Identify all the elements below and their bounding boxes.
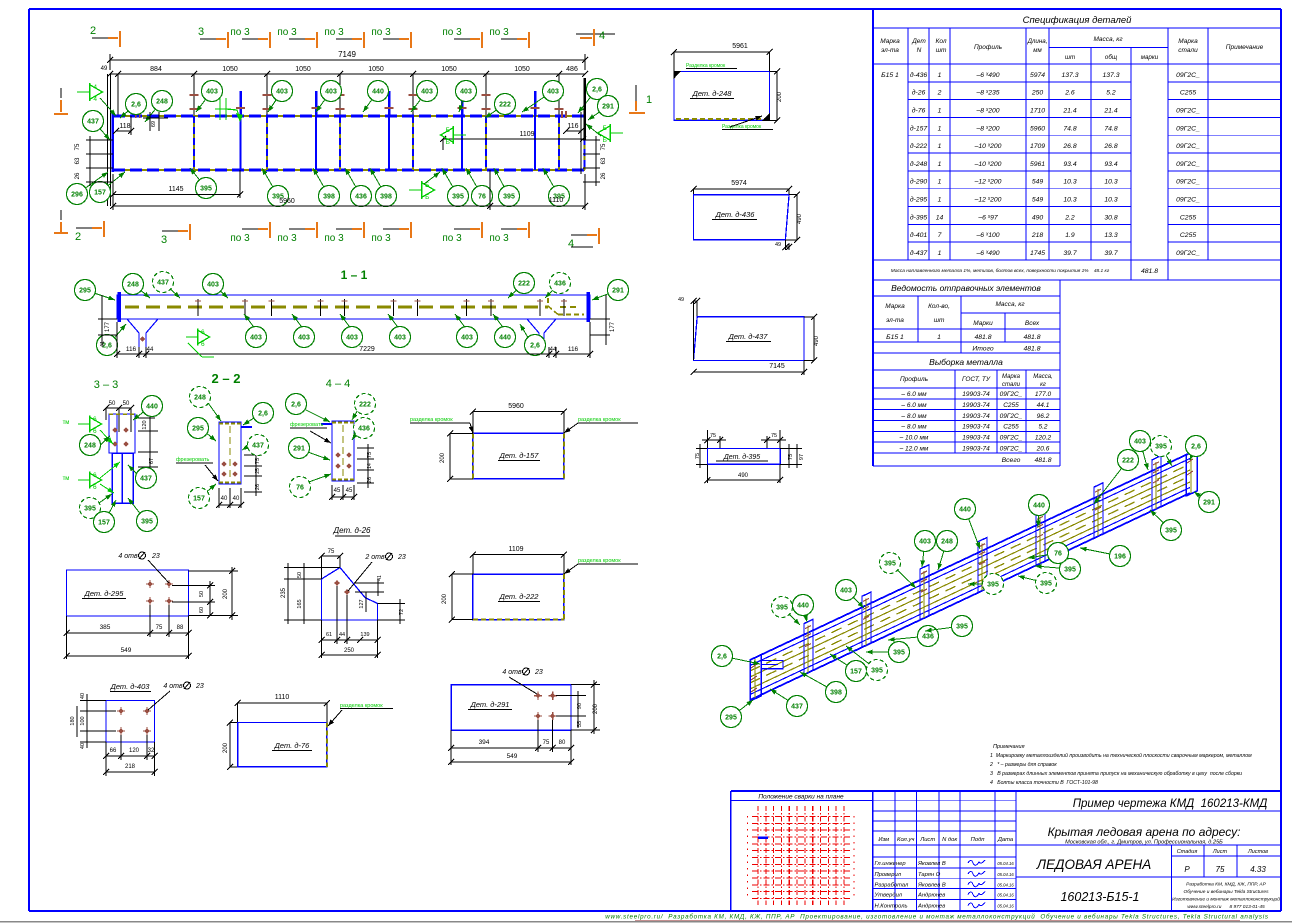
svg-text:235: 235 (281, 587, 287, 598)
svg-text:2 * – размеры для справок: 2 * – размеры для справок (989, 762, 1057, 768)
svg-text:–6 ˣ490: –6 ˣ490 (975, 250, 999, 257)
svg-text:67: 67 (149, 458, 155, 464)
svg-text:137.3: 137.3 (1061, 72, 1078, 79)
svg-text:эл-та: эл-та (881, 47, 899, 54)
svg-text:490: 490 (1032, 214, 1044, 221)
svg-text:549: 549 (507, 753, 518, 760)
svg-text:49: 49 (101, 66, 108, 72)
svg-text:6: 6 (93, 484, 97, 491)
svg-text:66: 66 (110, 748, 117, 754)
svg-text:общ: общ (1105, 54, 1118, 61)
svg-text:1: 1 (938, 125, 942, 132)
svg-text:93.4: 93.4 (1104, 161, 1117, 168)
svg-text:– 6.0 мм: – 6.0 мм (900, 402, 927, 409)
svg-text:44: 44 (147, 347, 154, 353)
svg-text:мм: мм (1033, 47, 1042, 54)
svg-text:490: 490 (814, 335, 820, 346)
svg-text:д-222: д-222 (910, 142, 928, 150)
svg-text:248: 248 (127, 282, 139, 289)
svg-text:стали: стали (1002, 382, 1021, 388)
svg-text:75: 75 (788, 454, 794, 460)
svg-text:по 3: по 3 (324, 27, 344, 38)
svg-text:1.9: 1.9 (1065, 232, 1075, 239)
svg-text:291: 291 (602, 104, 614, 111)
svg-text:440: 440 (1033, 503, 1045, 510)
svg-text:40: 40 (233, 496, 240, 502)
svg-text:1 Маркировку металлоизделий п: 1 Маркировку металлоизделий производить … (990, 752, 1252, 759)
svg-text:– 8.0 мм: – 8.0 мм (900, 413, 927, 420)
svg-text:3 – 3: 3 – 3 (94, 379, 118, 391)
svg-text:Яковлев В: Яковлев В (917, 861, 946, 867)
svg-text:403: 403 (421, 89, 433, 96)
svg-text:2: 2 (937, 90, 942, 97)
svg-text:395: 395 (1165, 528, 1177, 535)
svg-text:кг: кг (1040, 382, 1046, 388)
svg-text:45: 45 (334, 488, 341, 494)
svg-text:75: 75 (771, 433, 777, 439)
svg-text:884: 884 (150, 66, 162, 73)
svg-text:С255: С255 (1003, 402, 1019, 409)
svg-text:–10 ˣ200: –10 ˣ200 (974, 143, 1002, 150)
svg-text:61: 61 (326, 632, 332, 638)
svg-text:1109: 1109 (508, 546, 523, 553)
svg-text:2 – 2: 2 – 2 (212, 371, 241, 386)
svg-text:Всех: Всех (1025, 320, 1040, 327)
svg-text:90: 90 (577, 703, 583, 709)
svg-text:75: 75 (255, 458, 261, 464)
svg-text:–12 ˣ200: –12 ˣ200 (974, 197, 1002, 204)
svg-text:1: 1 (938, 179, 942, 186)
svg-text:Андрюнев: Андрюнев (917, 893, 945, 899)
svg-text:Кол-во,: Кол-во, (928, 303, 950, 310)
svg-text:44: 44 (339, 632, 345, 638)
svg-text:09Г2С_: 09Г2С_ (1000, 391, 1023, 398)
svg-text:137.3: 137.3 (1102, 72, 1119, 79)
svg-text:по 3: по 3 (230, 233, 250, 244)
svg-text:19903-74: 19903-74 (962, 445, 990, 452)
svg-text:222: 222 (518, 281, 530, 288)
svg-text:74.8: 74.8 (1063, 125, 1076, 132)
svg-text:222: 222 (359, 402, 371, 409)
svg-text:С255: С255 (1180, 214, 1196, 221)
svg-text:395: 395 (776, 605, 788, 612)
svg-text:296: 296 (71, 192, 83, 199)
svg-text:Б15 1: Б15 1 (881, 72, 899, 79)
svg-text:437: 437 (791, 704, 803, 711)
svg-text:N: N (917, 47, 922, 54)
svg-text:6: 6 (93, 416, 97, 423)
svg-text:5.2: 5.2 (1106, 90, 1116, 97)
svg-text:44.1: 44.1 (1037, 402, 1050, 409)
svg-text:5961: 5961 (1030, 161, 1045, 168)
svg-text:19903-74: 19903-74 (962, 402, 990, 409)
svg-text:2,6: 2,6 (717, 654, 727, 661)
svg-text:6: 6 (93, 472, 97, 479)
svg-text:05.04.16: 05.04.16 (997, 883, 1014, 888)
svg-text:09Г2С_: 09Г2С_ (1176, 143, 1200, 150)
svg-text:403: 403 (207, 282, 219, 289)
svg-text:116: 116 (568, 346, 579, 353)
svg-text:19903-74: 19903-74 (962, 413, 990, 420)
svg-text:д-76: д-76 (912, 106, 926, 114)
svg-text:Дет. д-76: Дет. д-76 (274, 741, 311, 750)
svg-text:75: 75 (328, 549, 335, 555)
svg-text:403: 403 (461, 335, 473, 342)
svg-text:д-401: д-401 (910, 231, 928, 239)
svg-text:– 10.0 мм: – 10.0 мм (899, 434, 929, 441)
svg-text:440: 440 (372, 89, 384, 96)
svg-text:Гл.инженер: Гл.инженер (875, 861, 907, 867)
svg-text:549: 549 (1032, 179, 1044, 186)
svg-text:403: 403 (547, 89, 559, 96)
svg-text:N док: N док (942, 837, 957, 843)
svg-text:Дет. д-157: Дет. д-157 (499, 451, 540, 460)
svg-text:Проверил: Проверил (875, 872, 902, 878)
svg-text:116: 116 (126, 346, 137, 353)
svg-text:эл-та: эл-та (886, 317, 904, 324)
svg-text:–8 ˣ200: –8 ˣ200 (975, 107, 999, 114)
svg-text:1110: 1110 (549, 197, 564, 204)
svg-text:295: 295 (192, 426, 204, 433)
svg-text:63: 63 (75, 157, 81, 164)
svg-text:Разработал: Разработал (875, 883, 910, 889)
svg-text:200: 200 (223, 588, 229, 599)
svg-text:7145: 7145 (769, 363, 785, 370)
svg-text:1: 1 (937, 334, 941, 341)
svg-text:118: 118 (119, 123, 130, 130)
svg-text:Б15 1: Б15 1 (886, 334, 904, 341)
svg-text:75: 75 (75, 143, 81, 150)
svg-text:165: 165 (297, 599, 303, 608)
svg-text:7149: 7149 (338, 50, 356, 59)
svg-text:1: 1 (938, 250, 942, 257)
svg-text:2,6: 2,6 (530, 343, 540, 350)
svg-text:481.8: 481.8 (1023, 334, 1040, 341)
svg-text:шт: шт (936, 47, 947, 54)
svg-text:45: 45 (346, 488, 353, 494)
svg-text:60: 60 (199, 607, 205, 613)
svg-text:395: 395 (987, 582, 999, 589)
svg-text:Ведомость отправочных элементо: Ведомость отправочных элементов (891, 283, 1041, 293)
svg-text:Лист: Лист (919, 837, 935, 843)
svg-text:ЛЕДОВАЯ АРЕНА: ЛЕДОВАЯ АРЕНА (1036, 857, 1152, 872)
svg-text:–6 ˣ490: –6 ˣ490 (975, 72, 999, 79)
svg-text:196: 196 (1114, 554, 1126, 561)
svg-text:д-290: д-290 (910, 178, 928, 186)
svg-text:218: 218 (125, 764, 136, 770)
svg-text:– 6.0 мм: – 6.0 мм (900, 391, 927, 398)
svg-text:6: 6 (201, 329, 205, 336)
svg-text:Кол: Кол (936, 38, 947, 45)
svg-text:437: 437 (157, 280, 169, 287)
svg-text:157: 157 (94, 190, 106, 197)
svg-text:549: 549 (121, 647, 132, 654)
svg-text:Б: Б (446, 127, 450, 134)
svg-text:160213-Б15-1: 160213-Б15-1 (1060, 890, 1139, 904)
svg-text:Лист: Лист (1212, 849, 1228, 855)
svg-text:40: 40 (80, 743, 86, 749)
svg-text:Примечание: Примечание (1226, 44, 1264, 51)
svg-text:–12 ˣ200: –12 ˣ200 (974, 179, 1002, 186)
svg-text:Дет. д-291: Дет. д-291 (470, 700, 510, 709)
svg-text:по 3: по 3 (489, 27, 509, 38)
svg-text:4: 4 (93, 96, 97, 103)
svg-text:С255: С255 (1180, 232, 1196, 239)
svg-text:403: 403 (840, 588, 852, 595)
svg-text:21.4: 21.4 (1062, 107, 1076, 114)
svg-text:30.8: 30.8 (1104, 214, 1117, 221)
svg-text:200: 200 (593, 703, 599, 714)
svg-text:Утвердил: Утвердил (874, 893, 903, 899)
svg-text:490: 490 (797, 213, 803, 224)
svg-text:Б: Б (446, 139, 450, 146)
svg-text:403: 403 (250, 335, 262, 342)
svg-text:395: 395 (84, 506, 96, 513)
svg-text:шт: шт (1065, 54, 1075, 61)
svg-text:09Г2С_: 09Г2С_ (1000, 445, 1023, 452)
svg-text:Марка: Марка (1178, 38, 1198, 45)
svg-text:23: 23 (397, 554, 406, 561)
svg-text:1: 1 (646, 94, 652, 106)
svg-text:09Г2С_: 09Г2С_ (1176, 161, 1200, 168)
svg-text:Масса, кг: Масса, кг (1093, 36, 1123, 43)
svg-text:88: 88 (177, 625, 184, 631)
svg-text:Стадия: Стадия (1177, 849, 1198, 855)
svg-text:7: 7 (938, 232, 942, 239)
svg-text:марки: марки (1141, 54, 1159, 61)
svg-text:481.8: 481.8 (1023, 346, 1040, 353)
svg-text:26: 26 (601, 172, 607, 179)
svg-text:440: 440 (797, 603, 809, 610)
svg-text:440: 440 (499, 335, 511, 342)
svg-text:10.3: 10.3 (1063, 197, 1076, 204)
svg-text:1745: 1745 (1030, 250, 1045, 257)
svg-text:по 3: по 3 (277, 233, 297, 244)
svg-text:Пример чертежа КМД 160213-КМД: Пример чертежа КМД 160213-КМД (1073, 798, 1268, 810)
svg-text:Марка: Марка (1002, 374, 1021, 380)
svg-text:26.8: 26.8 (1103, 143, 1117, 150)
svg-text:21.4: 21.4 (1103, 107, 1117, 114)
svg-text:стали: стали (1178, 47, 1198, 54)
svg-text:49: 49 (775, 242, 781, 248)
svg-text:5960: 5960 (508, 403, 524, 410)
svg-text:5.2: 5.2 (1038, 424, 1047, 431)
svg-text:395: 395 (893, 650, 905, 657)
svg-text:по 3: по 3 (489, 233, 509, 244)
svg-text:Кол.уч: Кол.уч (897, 837, 914, 843)
svg-text:С255: С255 (1180, 90, 1196, 97)
svg-text:291: 291 (293, 446, 305, 453)
svg-text:96.2: 96.2 (1037, 413, 1050, 420)
svg-text:Листов: Листов (1247, 849, 1268, 855)
svg-text:разделка кромок: разделка кромок (410, 417, 453, 423)
svg-text:403: 403 (919, 539, 931, 546)
svg-text:09Г2С_: 09Г2С_ (1176, 179, 1200, 186)
svg-text:248: 248 (194, 395, 206, 402)
svg-text:395: 395 (141, 519, 153, 526)
svg-text:1: 1 (938, 72, 942, 79)
svg-text:403: 403 (1134, 439, 1146, 446)
svg-text:398: 398 (323, 194, 335, 201)
svg-text:437: 437 (252, 443, 264, 450)
svg-text:222: 222 (1122, 458, 1134, 465)
svg-text:403: 403 (298, 335, 310, 342)
svg-text:2,6: 2,6 (592, 87, 602, 94)
svg-text:26.8: 26.8 (1062, 143, 1076, 150)
svg-text:5961: 5961 (732, 43, 748, 50)
svg-text:Андрюнев: Андрюнев (917, 904, 945, 910)
svg-text:1: 1 (938, 107, 942, 114)
svg-text:395: 395 (200, 186, 212, 193)
svg-text:13.3: 13.3 (1104, 232, 1117, 239)
svg-text:120.2: 120.2 (1035, 434, 1052, 441)
svg-text:26: 26 (75, 172, 81, 179)
svg-text:С255: С255 (1003, 424, 1019, 431)
svg-text:76: 76 (478, 194, 486, 201)
svg-text:1050: 1050 (441, 66, 457, 73)
svg-text:Дет. д-395: Дет. д-395 (723, 453, 760, 461)
svg-text:395: 395 (1064, 567, 1076, 574)
svg-text:139: 139 (360, 632, 369, 638)
svg-text:Профиль: Профиль (974, 44, 1003, 51)
svg-text:www.steelpro.ru/ Разработка К: www.steelpro.ru/ Разработка КМ, КМД, КЖ,… (605, 913, 1269, 921)
svg-text:5960: 5960 (279, 198, 295, 205)
svg-text:395: 395 (884, 561, 896, 568)
svg-text:–6 ˣ97: –6 ˣ97 (977, 214, 998, 221)
svg-text:09Г2С_: 09Г2С_ (1176, 107, 1200, 114)
svg-text:481.8: 481.8 (1034, 457, 1051, 464)
svg-text:1145: 1145 (168, 186, 183, 193)
svg-text:490: 490 (738, 473, 749, 479)
svg-text:10.3: 10.3 (1063, 179, 1076, 186)
svg-text:05.04.16: 05.04.16 (997, 872, 1014, 877)
svg-text:75: 75 (543, 740, 550, 746)
svg-text:Тарян О: Тарян О (918, 872, 941, 878)
svg-text:Примечания: Примечания (993, 744, 1025, 750)
svg-text:09Г2С_: 09Г2С_ (1000, 413, 1023, 420)
svg-text:Дет. д-437: Дет. д-437 (728, 332, 769, 341)
svg-text:403: 403 (394, 335, 406, 342)
svg-text:4: 4 (599, 30, 605, 42)
svg-text:295: 295 (725, 715, 737, 722)
svg-text:2,6: 2,6 (131, 102, 141, 109)
svg-text:Дет. д-222: Дет. д-222 (499, 592, 540, 601)
svg-text:481.8: 481.8 (974, 334, 991, 341)
svg-text:1050: 1050 (368, 66, 384, 73)
svg-text:Дет. д-403: Дет. д-403 (110, 682, 151, 691)
svg-text:Изм: Изм (878, 837, 889, 843)
svg-text:436: 436 (358, 426, 370, 433)
svg-text:2,6: 2,6 (291, 402, 301, 409)
svg-text:10.3: 10.3 (1104, 179, 1117, 186)
svg-text:4 – 4: 4 – 4 (326, 378, 350, 390)
svg-text:177: 177 (105, 321, 111, 332)
svg-text:– 12.0 мм: – 12.0 мм (899, 445, 929, 452)
svg-text:2: 2 (90, 25, 96, 37)
svg-text:09Г2С_: 09Г2С_ (1176, 72, 1200, 79)
svg-text:4 отв: 4 отв (502, 669, 522, 676)
svg-text:Дата: Дата (997, 837, 1014, 843)
svg-text:395: 395 (956, 624, 968, 631)
svg-text:200: 200 (442, 593, 448, 604)
svg-text:д-26: д-26 (912, 89, 926, 97)
svg-text:41: 41 (100, 341, 106, 347)
svg-text:395: 395 (503, 194, 515, 201)
svg-text:5974: 5974 (1030, 72, 1045, 79)
svg-text:1709: 1709 (1030, 143, 1045, 150)
svg-text:Масса наплавленного металла 1%: Масса наплавленного металла 1%, метизов,… (891, 268, 1110, 274)
svg-text:63: 63 (601, 157, 607, 164)
svg-text:4: 4 (568, 238, 574, 250)
svg-text:Б: Б (425, 194, 429, 201)
svg-text:248: 248 (156, 99, 168, 106)
svg-text:200: 200 (223, 742, 229, 753)
svg-text:по 3: по 3 (230, 27, 250, 38)
svg-text:Крытая ледовая арена по адресу: Крытая ледовая арена по адресу: (1048, 825, 1241, 839)
svg-text:50: 50 (123, 401, 130, 407)
svg-text:40: 40 (221, 496, 228, 502)
svg-text:4.33: 4.33 (1250, 865, 1266, 874)
svg-text:50: 50 (297, 572, 303, 578)
svg-text:32: 32 (148, 748, 155, 754)
svg-text:200: 200 (440, 452, 446, 463)
svg-text:398: 398 (380, 194, 392, 201)
svg-text:157: 157 (850, 669, 862, 676)
svg-text:80: 80 (559, 740, 566, 746)
svg-text:23: 23 (534, 669, 543, 676)
svg-text:180: 180 (70, 716, 76, 725)
svg-text:250: 250 (344, 648, 355, 654)
svg-text:Дет: Дет (911, 38, 926, 45)
svg-text:фрезеровать: фрезеровать (176, 457, 209, 463)
svg-text:25: 25 (255, 468, 261, 474)
svg-text:09Г2С_: 09Г2С_ (1176, 197, 1200, 204)
svg-text:–6 ˣ100: –6 ˣ100 (975, 232, 999, 239)
svg-text:д-437: д-437 (910, 249, 928, 257)
svg-text:д-395: д-395 (910, 213, 928, 221)
svg-text:394: 394 (479, 739, 490, 746)
svg-text:395: 395 (1040, 581, 1052, 588)
svg-text:76: 76 (296, 485, 304, 492)
svg-text:09Г2С_: 09Г2С_ (1176, 125, 1200, 132)
svg-text:291: 291 (1203, 500, 1215, 507)
svg-text:440: 440 (146, 404, 158, 411)
svg-text:д-248: д-248 (910, 160, 928, 168)
svg-text:д-295: д-295 (910, 196, 928, 204)
svg-text:д-157: д-157 (910, 124, 928, 132)
svg-text:Профиль: Профиль (900, 376, 929, 383)
svg-text:75: 75 (601, 143, 607, 150)
svg-text:Яковлев В: Яковлев В (917, 883, 946, 889)
svg-text:20.6: 20.6 (1036, 445, 1050, 452)
svg-text:– 8.0 мм: – 8.0 мм (900, 424, 927, 431)
svg-text:26: 26 (255, 484, 261, 490)
svg-text:фрезеровать: фрезеровать (290, 422, 323, 428)
svg-text:200: 200 (777, 91, 783, 102)
svg-text:д-436: д-436 (910, 71, 928, 79)
svg-text:Обучение и вебинары Tekla Stru: Обучение и вебинары Tekla Structures (1184, 889, 1270, 895)
svg-text:75: 75 (1216, 865, 1225, 874)
svg-text:69: 69 (151, 121, 157, 127)
svg-text:Р: Р (1184, 865, 1190, 874)
svg-text:Н.Контроль: Н.Контроль (875, 904, 908, 910)
svg-text:www.steelpro.ru 8 977 013: www.steelpro.ru 8 977 013-01-45 (1187, 904, 1265, 910)
svg-text:19903-74: 19903-74 (962, 434, 990, 441)
svg-text:Итого: Итого (972, 346, 994, 353)
svg-text:Дет. д-248: Дет. д-248 (692, 89, 733, 98)
svg-text:5960: 5960 (1030, 125, 1045, 132)
svg-text:75: 75 (156, 625, 163, 631)
